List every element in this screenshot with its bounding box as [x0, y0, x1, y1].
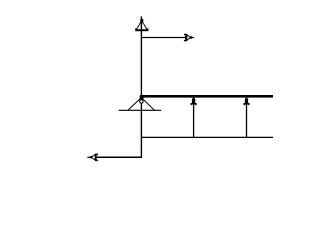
beam: thick horizontal member [140, 95, 273, 98]
wire: horizontal line to right arrow [141, 37, 185, 39]
wire: lower horizontal reference line [141, 136, 273, 138]
node C: left arrowhead at end of bottom line [87, 154, 98, 162]
load arrow 2: upward force arrow at x=246.5 [244, 97, 250, 138]
wire: main vertical axis line with corner to bottom-left arrow [97, 16, 142, 157]
support: pivot (pinned support) under beam [119, 95, 162, 110]
load arrow 1: upward force arrow at x=193.6 [191, 97, 197, 138]
node B: right-axis arrowhead [184, 34, 194, 42]
node A: up-axis arrowhead (hollow triangle with apex dot and base bar) [135, 19, 148, 31]
